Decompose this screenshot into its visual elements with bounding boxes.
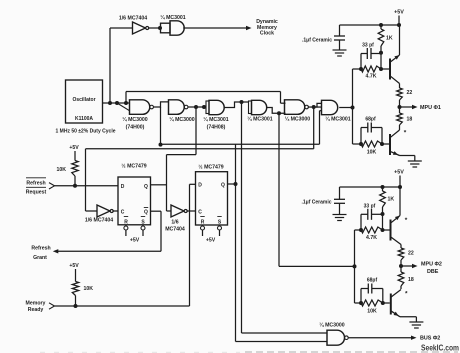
bubble FF2 S preset pull-up xyxy=(218,226,222,236)
label C5 33 pf xyxy=(364,204,376,210)
wire Q1 base xyxy=(381,68,389,70)
svg-text:22: 22 xyxy=(407,90,413,96)
svg-text:1/6 MC7404: 1/6 MC7404 xyxy=(85,218,113,224)
node R8 / C5 junction xyxy=(381,212,385,216)
label R7 10K xyxy=(367,150,377,156)
node MPU phase-2 output xyxy=(399,264,403,268)
svg-text:10K: 10K xyxy=(367,150,377,156)
label G2 1/4 MC3000 xyxy=(169,116,194,123)
inverter U3A 1/6 MC7404 xyxy=(133,22,149,34)
resistor R6 18 ohm xyxy=(397,113,403,125)
svg-text:BUS Φ2: BUS Φ2 xyxy=(420,336,440,342)
wire U3B output to FF1 C input xyxy=(112,210,118,212)
svg-text:1/6 MC7404: 1/6 MC7404 xyxy=(119,16,147,22)
node G5 output feedback branch xyxy=(312,105,316,109)
wire feedback line A horizontal xyxy=(161,143,320,145)
svg-text:Q: Q xyxy=(144,184,148,190)
svg-text:C: C xyxy=(198,210,202,216)
svg-text:+5V: +5V xyxy=(130,238,140,244)
gate G5 1/4 MC3000 xyxy=(285,100,309,115)
node +5V rail 2 at collector riser xyxy=(398,185,402,189)
label 1/4 MC3001 (U4A) xyxy=(160,14,185,21)
label asterisk Q2 xyxy=(404,130,407,137)
node G4 input branch to bus gate xyxy=(240,100,244,104)
svg-text:33 pf: 33 pf xyxy=(362,43,374,49)
inverter U3C 1/6 MC7404 (FF2 clock) xyxy=(171,205,187,217)
capacitor C2 33pf xyxy=(361,48,381,59)
node +5V rail 2 at R8 xyxy=(381,185,385,189)
label BUS phase-2 xyxy=(420,336,440,342)
svg-text:¼ MC3000: ¼ MC3000 xyxy=(169,116,194,123)
label R2 10K xyxy=(84,286,94,292)
wire FF2 Q output xyxy=(228,183,236,185)
wire FF1 Q to line C riser xyxy=(151,184,167,186)
svg-text:.1μf Ceramic: .1μf Ceramic xyxy=(302,38,332,44)
label 1/4 MC3000 (U5A) xyxy=(319,322,344,329)
label +5V (phase-2 driver) xyxy=(394,170,404,176)
svg-text:1/6: 1/6 xyxy=(171,220,178,226)
wire FF1 Q-bar to refresh grant xyxy=(57,211,161,251)
svg-text:10K: 10K xyxy=(84,286,94,292)
wire G3 output jog up to G4 input xyxy=(224,102,249,108)
label 1/6 MC7404 (U3C) xyxy=(165,220,185,233)
label MPU phase-2 DBE xyxy=(421,262,442,276)
svg-text:R: R xyxy=(201,219,205,225)
svg-text:+5V: +5V xyxy=(206,238,216,244)
wire Q2 emitter to ground xyxy=(400,156,415,162)
pin label R-bar (FF1) xyxy=(124,217,128,226)
wire R11 to Q4 collector xyxy=(400,286,402,289)
pin label D (FF2) xyxy=(198,183,202,189)
label MPU phase-1 xyxy=(420,105,441,111)
svg-text:D: D xyxy=(121,184,125,190)
node refresh request pull-up junction xyxy=(73,184,77,188)
pin label S-bar (FF1) xyxy=(141,217,146,226)
pin label C (FF1) xyxy=(121,210,125,216)
node R7 left / C3 xyxy=(359,142,363,146)
wire R2 to memory ready line xyxy=(75,296,77,307)
pin label C (FF2) xyxy=(198,210,202,216)
svg-text:68pf: 68pf xyxy=(367,278,378,284)
node R3 / C2 junction xyxy=(379,51,383,55)
node R12 right / Q4 base xyxy=(381,301,385,305)
wire feedback line B (G5 output down) xyxy=(313,107,315,149)
svg-text:¼ MC3001: ¼ MC3001 xyxy=(247,116,272,123)
node R7 right / Q2 base xyxy=(380,142,384,146)
wire G6 output to phase-1 driver rail xyxy=(339,107,352,109)
pin label Q (FF1) xyxy=(144,184,148,190)
gate G1 1/4 MC3000 (74H00) xyxy=(130,100,154,115)
wire G4 output jog down to G5 input xyxy=(267,108,286,114)
pin label Q-bar (FF1) xyxy=(144,208,148,216)
input chevron Refresh Request xyxy=(49,183,55,189)
capacitor C6 68pf xyxy=(361,284,383,294)
svg-text:Grant: Grant xyxy=(33,255,47,261)
arrow Refresh Grant (output, points left) xyxy=(53,249,59,253)
svg-text:¼ MC3000: ¼ MC3000 xyxy=(122,116,147,123)
pin label D (FF1) xyxy=(121,184,125,190)
label +5V (FF2 R/S) xyxy=(206,238,216,244)
resistor R11 18 ohm xyxy=(398,272,404,286)
label K1100A xyxy=(75,116,93,122)
wire G4 output vertical to phase-2 driver xyxy=(279,113,355,266)
svg-text:(74H00): (74H00) xyxy=(126,125,145,131)
label G1 1/4 MC3000 (74H00) xyxy=(122,116,147,131)
bubble FF2 R preset pull-up xyxy=(201,226,205,236)
node R4 right / Q1 base xyxy=(379,67,383,71)
svg-text:¼ MC3000: ¼ MC3000 xyxy=(285,116,310,123)
wire R3 top xyxy=(380,25,382,29)
label +5V (phase-1 driver) xyxy=(394,10,404,16)
label R10 22 xyxy=(408,251,414,257)
wire top rail to gate G5 (from oscillator node) xyxy=(126,92,286,104)
wire Q1 collector to +5V xyxy=(399,25,401,55)
label G5 1/4 MC3000 xyxy=(285,116,310,123)
capacitor C5 33pf xyxy=(361,209,383,220)
svg-text:+5V: +5V xyxy=(69,263,79,269)
wire +5V stem phase-2 xyxy=(399,176,401,188)
svg-text:Memory: Memory xyxy=(26,300,46,306)
node G2 output branch at G3 tie bar xyxy=(202,105,206,109)
svg-text:¼ MC3000: ¼ MC3000 xyxy=(319,322,344,329)
oscillator Y1 box xyxy=(66,80,103,123)
resistor R8 1K xyxy=(380,191,386,207)
transistor Q3 (upper, phase-2) xyxy=(391,216,402,245)
svg-text:K1100A: K1100A xyxy=(75,116,93,122)
transistor Q1 (upper, phase-1) xyxy=(390,55,400,84)
wire G4 input vertical to bus gate upper input xyxy=(242,102,328,333)
input chevron Memory Ready xyxy=(49,303,55,309)
node +5V rail at R3 xyxy=(379,23,383,27)
svg-text:¼ MC3001: ¼ MC3001 xyxy=(203,116,228,123)
svg-text:MC7404: MC7404 xyxy=(165,227,185,233)
ground C1 xyxy=(333,50,347,56)
node oscillator output / U3A branch xyxy=(108,101,112,105)
wire R1 to refresh request line xyxy=(74,176,76,186)
label C1 .1uF Ceramic xyxy=(302,38,332,44)
label 1/6 MC7404 (U3B) xyxy=(85,218,113,224)
resistor R7 10K xyxy=(361,141,382,147)
pin label Q (FF2) xyxy=(221,183,225,189)
label G4 1/4 MC3001 xyxy=(247,116,272,123)
wire +5V rail phase-2 xyxy=(340,186,401,188)
gate G2 1/4 MC3000 xyxy=(169,100,188,115)
svg-text:18: 18 xyxy=(408,277,414,283)
wire R8 to node xyxy=(382,207,384,230)
node top rail at oscillator output xyxy=(124,101,128,105)
label C4 .1uF Ceramic xyxy=(301,199,331,205)
node line A at G2 input riser xyxy=(159,107,163,147)
wire Q2 base xyxy=(382,143,389,145)
label R5 22 xyxy=(407,90,413,96)
wire oscillator output xyxy=(103,102,130,104)
svg-text:Clock: Clock xyxy=(260,31,274,37)
wire G2 output to G3 input xyxy=(188,106,207,108)
svg-text:22: 22 xyxy=(408,251,414,257)
node R9 left / C5 xyxy=(359,228,363,232)
capacitor C1 0.1uF ceramic xyxy=(334,25,345,50)
pin label S-bar (FF2) xyxy=(217,217,222,226)
svg-text:+5V: +5V xyxy=(394,10,404,16)
wire Q3 emitter to R10 xyxy=(400,245,402,249)
resistor R5 22 ohm xyxy=(397,88,403,100)
wire Q3 collector to +5V xyxy=(399,187,401,216)
gate G3 1/4 MC3001 (74H08) xyxy=(206,100,224,114)
svg-text:Request: Request xyxy=(26,189,47,195)
wire +5V to R1 xyxy=(74,151,76,161)
label Oscillator xyxy=(72,97,95,103)
label +5V (refresh request pull-up) xyxy=(69,145,79,151)
wire and arrow BUS phase-2 output xyxy=(348,336,416,340)
label +5V (FF1 R/S) xyxy=(130,238,140,244)
svg-text:DBE: DBE xyxy=(427,269,439,275)
label C6 68pf xyxy=(367,278,378,284)
svg-text:MPU Φ1: MPU Φ1 xyxy=(420,105,441,111)
node +5V rail at collector riser xyxy=(397,23,401,27)
resistor R1 10K pull-up xyxy=(72,161,78,177)
label 1 MHz 50 +/-2% Duty Cycle xyxy=(56,129,116,135)
bubble FF1 R preset pull-up xyxy=(124,226,128,236)
label Dynamic Memory Clock xyxy=(256,19,278,36)
wire Q1 emitter to R5 xyxy=(399,84,401,89)
node G2 output branch to FF section xyxy=(194,105,198,109)
wire U3C output to FF2 C input xyxy=(186,210,195,212)
wire feedback line B horizontal xyxy=(86,148,314,150)
svg-text:1K: 1K xyxy=(388,197,395,203)
wire phase-2 rail xyxy=(355,230,362,303)
label R1 10K xyxy=(56,167,66,173)
label C2 33 pf xyxy=(362,43,374,49)
svg-text:10K: 10K xyxy=(56,167,66,173)
flip-flop FF1 1/2 MC7479 box xyxy=(118,177,151,225)
wire oscillator output to inverter U3A (vertical riser) xyxy=(110,28,133,103)
svg-text:Q: Q xyxy=(144,210,148,216)
wire R10 to phase-2 output node xyxy=(400,260,402,272)
pin label R-bar (FF2) xyxy=(200,217,204,226)
svg-text:+5V: +5V xyxy=(69,145,79,151)
wire R6 to Q2 collector xyxy=(399,125,401,130)
wire FF2 Q vertical to bus gate lower input xyxy=(236,144,328,341)
svg-text:Q: Q xyxy=(221,183,225,189)
label +5V (memory ready pull-up) xyxy=(69,263,79,269)
ground Q2 emitter xyxy=(408,161,422,167)
wire feedback line A (G6 lower input to line A) xyxy=(320,111,322,145)
svg-text:½ MC7479: ½ MC7479 xyxy=(198,164,223,171)
label Refresh Grant xyxy=(31,245,50,261)
svg-text:½ MC7479: ½ MC7479 xyxy=(121,163,146,170)
wire U3A output to gate U4A input xyxy=(148,27,161,29)
resistor R12 10K xyxy=(361,300,383,306)
wire C5 left leg down xyxy=(360,214,362,230)
node FF2 Q to bus gate xyxy=(234,182,238,186)
label R4 4.7K xyxy=(366,74,377,80)
svg-text:D: D xyxy=(198,183,202,189)
wire U4A output to Dynamic Memory Clock arrow xyxy=(183,26,251,30)
wire and arrow MPU phase-2 output xyxy=(401,264,418,268)
wire memory ready line xyxy=(55,305,190,307)
label Memory Ready xyxy=(26,300,46,313)
gate U4A 1/4 MC3001 (dynamic memory clock AND) xyxy=(161,21,185,35)
wire and arrow MPU phase-1 output xyxy=(400,105,418,109)
resistor R3 1K xyxy=(378,29,384,46)
wire Q3 base xyxy=(383,229,390,231)
transistor Q4 (lower, phase-2) xyxy=(391,290,401,317)
wire C2 left leg down to 4.7K node xyxy=(360,54,362,70)
svg-text:68pf: 68pf xyxy=(365,117,376,123)
svg-text:1 MHz 50 ±2% Duty Cycle: 1 MHz 50 ±2% Duty Cycle xyxy=(56,129,116,135)
wire memory ready riser to FF2 D input xyxy=(190,184,196,306)
svg-text:¼ MC3001: ¼ MC3001 xyxy=(325,116,350,123)
label Refresh Request (active low) xyxy=(26,178,47,196)
label C3 68pf xyxy=(365,117,376,123)
transistor Q2 (lower, phase-1) xyxy=(390,130,400,156)
capacitor C3 68pf xyxy=(361,123,382,133)
label R6 18 xyxy=(407,117,413,123)
node G4 output branch to MPU phase-2 driver xyxy=(277,111,281,115)
node MPU phase-1 output xyxy=(398,105,402,109)
wire G1 output to G2 input xyxy=(154,102,169,107)
inverter U3B 1/6 MC7404 (FF1 clock) xyxy=(97,205,113,217)
ground C4 xyxy=(333,215,347,221)
node R4 left / C2 xyxy=(359,67,363,71)
svg-text:C: C xyxy=(121,210,125,216)
label asterisk Q4 xyxy=(405,291,408,298)
label asterisk Q3 xyxy=(405,217,408,224)
node U4A tied inputs xyxy=(158,26,162,30)
resistor R4 4.7K xyxy=(361,66,381,72)
svg-text:10K: 10K xyxy=(367,309,377,315)
node phase-2 rail at drive input xyxy=(353,264,357,268)
wire line B left drop to inverter U3B xyxy=(86,149,98,211)
svg-text:.1μf Ceramic: .1μf Ceramic xyxy=(301,199,331,205)
wire +5V rail phase-1 xyxy=(340,24,400,26)
gate G4 1/4 MC3001 xyxy=(249,100,267,114)
svg-text:Refresh: Refresh xyxy=(26,180,45,186)
wire line C drop to inverter U3C xyxy=(167,155,172,211)
label G6 1/4 MC3001 xyxy=(325,116,350,123)
label R9 4.7K xyxy=(366,235,377,241)
svg-text:(74H08): (74H08) xyxy=(207,125,226,131)
capacitor C4 0.1uF ceramic xyxy=(334,187,345,215)
svg-text:SeekIC.com: SeekIC.com xyxy=(421,343,459,353)
label R12 10K xyxy=(367,309,377,315)
svg-text:1K: 1K xyxy=(386,36,393,42)
node phase-1 rail at G6 output xyxy=(351,106,355,110)
flip-flop FF2 1/2 MC7479 box xyxy=(196,172,228,225)
resistor R9 4.7K xyxy=(361,227,383,233)
label R8 1K xyxy=(388,197,395,203)
svg-text:+5V: +5V xyxy=(394,170,404,176)
label SeekIC.com watermark xyxy=(421,343,459,353)
label 1/6 MC7404 (U3A) xyxy=(119,16,147,22)
label 1/2 MC7479 (FF1) xyxy=(121,163,146,170)
wire C3 legs to R7 xyxy=(361,128,382,145)
resistor R2 10K xyxy=(72,282,78,296)
svg-text:18: 18 xyxy=(407,117,413,123)
label R11 18 xyxy=(408,277,414,283)
wire R5 to phase-1 output node xyxy=(399,100,401,113)
wire C6 legs to R12 xyxy=(361,289,383,304)
bubble FF1 S preset pull-up xyxy=(141,226,145,236)
svg-text:33 pf: 33 pf xyxy=(364,204,376,210)
svg-text:Refresh: Refresh xyxy=(31,245,50,251)
label 1/2 MC7479 (FF2) xyxy=(198,164,223,171)
svg-text:MPU Φ2: MPU Φ2 xyxy=(421,262,442,268)
node oscillator output / G1 lower input branch xyxy=(115,101,130,111)
wire R8 top xyxy=(382,187,384,191)
wire Q4 base xyxy=(383,302,390,304)
ground Q4 emitter xyxy=(409,322,423,328)
svg-text:¼ MC3001: ¼ MC3001 xyxy=(160,14,185,21)
wire phase-1 rail (G6 output node to R4/R7) xyxy=(353,69,362,144)
svg-text:R: R xyxy=(124,219,128,225)
node R12 left / C6 xyxy=(359,301,363,305)
label G3 1/4 MC3001 (74H08) xyxy=(203,116,228,131)
node R9 right / Q3 base xyxy=(381,228,385,232)
svg-text:4.7K: 4.7K xyxy=(366,235,377,241)
wire +5V to R2 xyxy=(75,269,77,282)
wire refresh request to FF1 D input xyxy=(55,185,119,187)
gate G6 1/4 MC3001 xyxy=(322,100,338,114)
wire +5V stem phase-1 xyxy=(398,16,400,26)
wire Q4 emitter to ground xyxy=(400,317,416,322)
label R3 1K xyxy=(386,36,393,42)
svg-text:Ready: Ready xyxy=(28,307,44,313)
resistor R10 22 ohm xyxy=(398,248,404,260)
gate U5A 1/4 MC3000 bus driver xyxy=(327,330,348,345)
wire line C (G2 output drop) xyxy=(167,107,197,155)
node memory ready pull-up junction xyxy=(74,304,78,308)
wire G5 output to G6 input xyxy=(308,103,322,107)
wire R3 to node xyxy=(380,46,382,69)
svg-text:Oscillator: Oscillator xyxy=(72,97,95,103)
svg-text:4.7K: 4.7K xyxy=(366,74,377,80)
